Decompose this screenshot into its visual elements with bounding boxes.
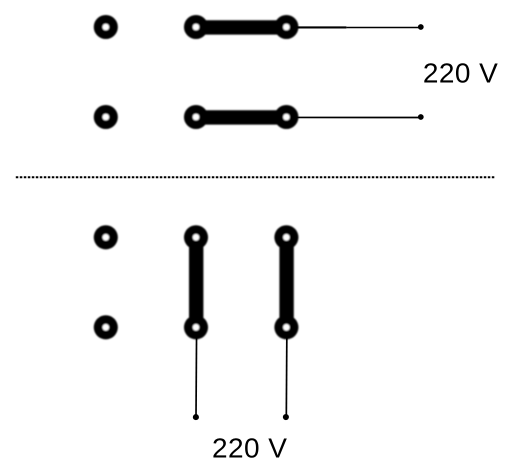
terminal post T4 (top section, row 2, col 1) bbox=[94, 105, 118, 129]
terminal post T11 (bottom section, row 1, col 3) bbox=[274, 225, 298, 249]
wire (top supply lead, row 1, outer segment) bbox=[346, 26, 420, 28]
terminal post T3 (top section, row 1, col 3) bbox=[274, 15, 298, 39]
wire (bottom supply lead, col 3) bbox=[285, 327, 288, 417]
terminal post T6 (top section, row 2, col 3) bbox=[274, 105, 298, 129]
terminal post T9 (bottom section, row 1, col 2) bbox=[184, 225, 208, 249]
jumper link J4 (bottom section, col 3) bbox=[279, 237, 293, 327]
supply lead end dot (row 2) bbox=[418, 114, 424, 120]
jumper link J1 (top section, row 1, cols 2-3) bbox=[196, 20, 286, 34]
svg-text:220 V: 220 V bbox=[212, 433, 287, 464]
supply lead end dot (row 1) bbox=[418, 24, 424, 30]
terminal post T10 (bottom section, row 2, col 2) bbox=[184, 315, 208, 339]
svg-text:220 V: 220 V bbox=[423, 58, 498, 89]
jumper link J3 (bottom section, col 2) bbox=[189, 237, 203, 327]
value label 220 V (top supply) bbox=[423, 58, 498, 89]
supply lead end dot (col 2) bbox=[193, 414, 199, 420]
terminal post T8 (bottom section, row 2, col 1) bbox=[94, 315, 118, 339]
terminal post T5 (top section, row 2, col 2) bbox=[184, 105, 208, 129]
terminal post T12 (bottom section, row 2, col 3) bbox=[274, 315, 298, 339]
jumper link J2 (top section, row 2, cols 2-3) bbox=[196, 110, 286, 124]
value label 220 V (bottom supply) bbox=[212, 433, 287, 464]
supply lead end dot (col 3) bbox=[283, 414, 289, 420]
terminal post T2 (top section, row 1, col 2) bbox=[184, 15, 208, 39]
divider (dotted separator line) bbox=[16, 176, 495, 178]
wire (top supply lead, row 1, winding segment) bbox=[286, 26, 346, 28]
terminal post T7 (bottom section, row 1, col 1) bbox=[94, 225, 118, 249]
wire (bottom supply lead, col 2) bbox=[195, 327, 198, 417]
wire (top supply lead, row 2) bbox=[286, 116, 420, 118]
terminal post T1 (top section, row 1, col 1) bbox=[94, 15, 118, 39]
